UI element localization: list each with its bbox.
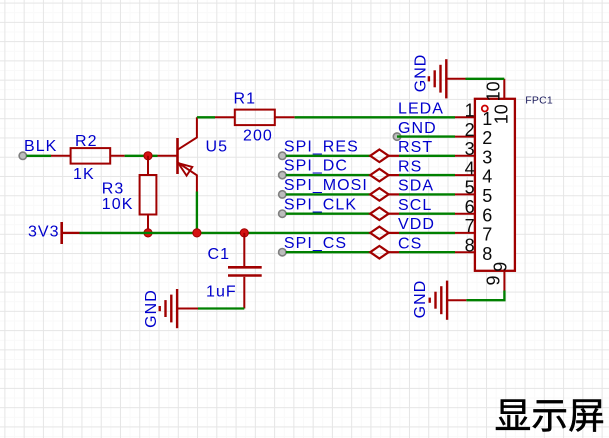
node SPI_DC wire end [279, 171, 286, 178]
svg-text:SPI_CS: SPI_CS [284, 235, 347, 252]
wire port to pin7 [389, 232, 399, 234]
wire port to pin8 [389, 251, 399, 253]
title text 显示屏 [496, 399, 603, 431]
resistor R3 [140, 156, 157, 229]
resistor R2 [51, 148, 125, 164]
svg-text:R2: R2 [75, 133, 98, 150]
pin 10 lead [503, 79, 505, 99]
wire R3 to rail [147, 229, 149, 233]
wire GND to pin2 [397, 135, 455, 137]
svg-text:GND: GND [143, 289, 160, 328]
power flag 3V3 [62, 222, 80, 244]
wire port to pin4 [389, 174, 399, 176]
svg-text:7: 7 [482, 225, 492, 245]
wire SPI_MOSI to port [286, 193, 370, 195]
svg-text:3: 3 [482, 147, 492, 167]
svg-text:5: 5 [465, 178, 475, 198]
svg-text:8: 8 [482, 244, 492, 264]
wire SPI_DC to port [286, 174, 370, 176]
ground GND lower-left [160, 289, 198, 328]
wire green to pin8 [399, 251, 455, 253]
svg-text:200: 200 [243, 128, 273, 145]
wire BLK to R2 [26, 155, 51, 157]
node SPI_MOSI wire end [279, 191, 286, 198]
svg-text:SPI_MOSI: SPI_MOSI [284, 177, 368, 194]
svg-text:1: 1 [465, 101, 475, 121]
wire green to pin5 [399, 193, 455, 195]
junction base node [144, 152, 152, 160]
netport diamond SCL [370, 207, 388, 220]
svg-text:GND: GND [412, 54, 429, 93]
wire green to pin7 [399, 232, 455, 234]
pin 4 [455, 174, 475, 176]
wire port to pin6 [389, 213, 399, 215]
wire green to pin6 [399, 213, 455, 215]
svg-text:CS: CS [398, 236, 422, 253]
svg-text:SPI_CLK: SPI_CLK [284, 196, 357, 213]
svg-text:SDA: SDA [398, 178, 434, 195]
wire C1 to ground [198, 307, 244, 309]
wire green to pin3 [399, 155, 455, 157]
junction R3-rail [144, 229, 152, 237]
wire R1 to pin1 LEDA [295, 116, 455, 118]
wire SPI_RES to port [286, 155, 370, 157]
svg-text:U5: U5 [206, 138, 229, 155]
pin 6 [455, 213, 475, 215]
svg-text:5: 5 [482, 186, 492, 206]
svg-text:FPC1: FPC1 [525, 95, 553, 107]
node GND wire end pin2 [393, 133, 400, 140]
pin 3 [455, 155, 475, 157]
pin 2 [455, 136, 475, 138]
pin 7 [455, 232, 475, 234]
svg-text:10: 10 [483, 81, 503, 101]
svg-text:LEDA: LEDA [398, 101, 444, 118]
wire R2 to base node [125, 155, 158, 157]
pin 5 [455, 193, 475, 195]
svg-text:GND: GND [412, 280, 429, 319]
netport diamond SDA [370, 188, 388, 201]
pin1 marker circle [482, 106, 488, 112]
svg-text:BLK: BLK [24, 138, 57, 155]
svg-text:SPI_DC: SPI_DC [284, 158, 348, 175]
svg-text:C1: C1 [208, 246, 231, 263]
svg-text:RST: RST [398, 139, 433, 156]
wire SPI_CS to port [286, 251, 370, 253]
svg-text:3V3: 3V3 [28, 224, 60, 241]
wire 3V3 rail [80, 232, 371, 234]
transistor U5 [158, 117, 197, 191]
node SPI_RES wire end [279, 152, 286, 159]
junction emitter-rail [193, 229, 201, 237]
svg-text:SCL: SCL [398, 197, 432, 214]
pin 8 [455, 251, 475, 253]
ground GND top-right [429, 59, 466, 98]
pin 1 [455, 116, 475, 118]
svg-text:10K: 10K [102, 196, 134, 213]
svg-text:3: 3 [465, 139, 475, 159]
node BLK wire end [19, 152, 26, 159]
wire pin9 to ground [466, 291, 504, 301]
wire pin10 to ground [466, 78, 505, 80]
pin 9 lead [503, 271, 505, 291]
junction C1-rail [240, 229, 248, 237]
node SPI_CS wire end [279, 249, 286, 256]
connector FPC1 body [475, 99, 515, 271]
svg-text:1K: 1K [73, 166, 95, 183]
svg-text:1uF: 1uF [206, 284, 237, 301]
svg-text:SPI_RES: SPI_RES [284, 138, 359, 155]
svg-text:RS: RS [398, 158, 422, 175]
svg-text:6: 6 [465, 197, 475, 217]
wire collector to R1 [197, 116, 215, 118]
netport diamond VDD on rail [370, 227, 388, 240]
svg-text:9: 9 [483, 275, 503, 285]
svg-text:2: 2 [465, 120, 475, 140]
svg-text:R1: R1 [234, 91, 257, 108]
netport diamond RS [370, 169, 388, 182]
wire emitter to rail [196, 192, 198, 233]
svg-text:VDD: VDD [398, 216, 435, 233]
capacitor C1 [228, 233, 262, 309]
svg-text:GND: GND [398, 120, 437, 137]
svg-text:10: 10 [492, 104, 512, 124]
resistor R1 [215, 110, 295, 126]
svg-text:9: 9 [491, 262, 511, 272]
ground GND bottom-right [430, 281, 467, 320]
node SPI_CLK wire end [279, 210, 286, 217]
wire green to pin4 [399, 174, 455, 176]
svg-text:7: 7 [465, 216, 475, 236]
svg-text:4: 4 [482, 167, 492, 187]
svg-text:8: 8 [465, 235, 475, 255]
svg-text:R3: R3 [102, 181, 125, 198]
netport diamond RST [370, 150, 388, 163]
netport diamond CS [370, 246, 388, 259]
wire port to pin3 [389, 155, 399, 157]
svg-text:2: 2 [482, 128, 492, 148]
wire SPI_CLK to port [286, 213, 370, 215]
svg-text:4: 4 [465, 158, 475, 178]
svg-text:6: 6 [482, 205, 492, 225]
wire port to pin5 [389, 193, 399, 195]
